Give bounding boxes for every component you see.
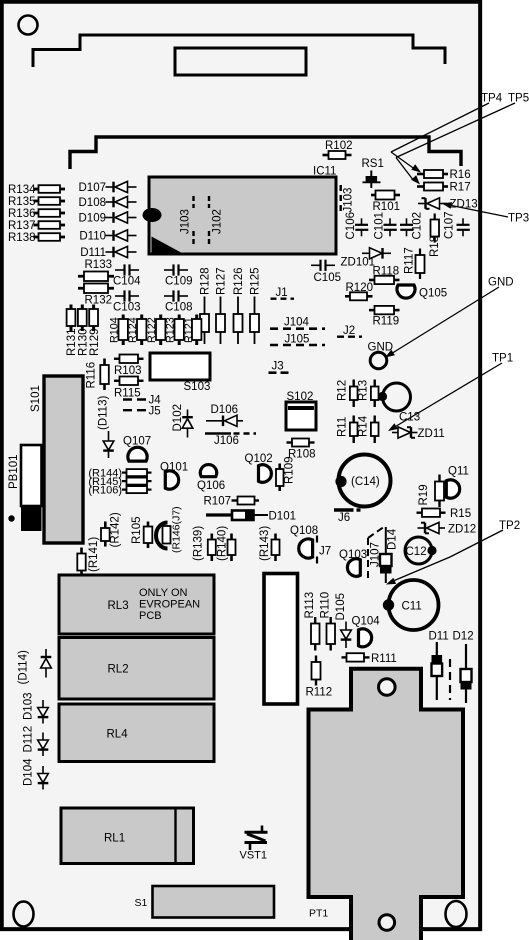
svg-text:Q102: Q102 xyxy=(245,453,273,465)
svg-text:R127: R127 xyxy=(216,268,228,296)
svg-text:R15: R15 xyxy=(450,508,471,520)
svg-text:(C14): (C14) xyxy=(351,476,380,488)
svg-text:D105: D105 xyxy=(335,593,347,621)
svg-text:PCB: PCB xyxy=(139,610,162,622)
transistor Q103 xyxy=(339,549,367,576)
resistor (R106) xyxy=(88,484,151,496)
resistor R115 xyxy=(114,377,144,400)
diode D111 xyxy=(80,246,136,259)
jumper J103 inside IC11 xyxy=(180,196,194,244)
resistor R12 xyxy=(337,380,358,408)
mounting hole bottom-left xyxy=(14,902,34,927)
svg-text:TP4: TP4 xyxy=(481,93,503,105)
pushbutton PB101 xyxy=(8,445,42,531)
jumper J4 xyxy=(123,395,161,407)
resistor R109 xyxy=(276,457,296,492)
diode D109 xyxy=(79,212,137,225)
svg-text:D111: D111 xyxy=(80,247,106,259)
resistor R108 xyxy=(287,439,316,461)
svg-text:R132: R132 xyxy=(85,295,113,307)
relay RL2 xyxy=(59,638,214,700)
capacitor (C14) xyxy=(335,455,390,507)
resistor R110 xyxy=(320,592,336,651)
wire dashed xyxy=(449,659,451,700)
capacitor C107 xyxy=(444,212,470,240)
resistor R132 xyxy=(78,284,114,307)
diode D11 xyxy=(429,631,449,701)
resistor R123 xyxy=(165,315,184,346)
switch S101 xyxy=(30,376,83,543)
resistor R17 xyxy=(417,182,471,194)
svg-text:D104: D104 xyxy=(23,758,35,786)
svg-text:D12: D12 xyxy=(453,631,474,643)
transistor Q107 xyxy=(123,436,151,462)
resistor (R142) xyxy=(101,512,122,547)
svg-text:C102: C102 xyxy=(412,212,424,240)
svg-text:R108: R108 xyxy=(288,449,316,461)
resistor R101 xyxy=(371,191,400,214)
zener diode ZD11 xyxy=(392,427,445,440)
transformer PT1 xyxy=(309,669,464,940)
svg-text:S1: S1 xyxy=(135,897,148,909)
resistor R105 xyxy=(131,517,152,549)
svg-text:R13: R13 xyxy=(358,380,370,401)
svg-text:C12: C12 xyxy=(406,546,427,558)
svg-text:J6: J6 xyxy=(338,512,350,524)
svg-text:ZD101: ZD101 xyxy=(341,257,376,269)
capacitor C103 xyxy=(113,290,141,313)
svg-text:J5: J5 xyxy=(149,406,161,418)
resistor R14 xyxy=(358,415,379,443)
leader GND to ground pad xyxy=(385,287,499,358)
board slot xyxy=(175,48,306,75)
diode D112 xyxy=(23,726,49,756)
capacitor C109 xyxy=(164,264,193,287)
svg-text:R129: R129 xyxy=(89,329,101,357)
svg-text:C13: C13 xyxy=(399,412,420,424)
resistor R11 xyxy=(337,416,358,444)
svg-text:Q106: Q106 xyxy=(197,480,225,492)
leader TP4 to R16 xyxy=(391,103,489,173)
svg-text:D109: D109 xyxy=(79,213,107,225)
resistor R107 xyxy=(204,496,260,508)
svg-text:R133: R133 xyxy=(85,259,113,271)
diode D101 xyxy=(206,511,296,523)
IC IC11 xyxy=(143,166,337,255)
transistor Q11 xyxy=(446,466,469,499)
svg-text:(R139): (R139) xyxy=(193,526,205,561)
svg-text:D108: D108 xyxy=(79,197,107,209)
capacitor C105 xyxy=(311,260,341,284)
resistor R104 xyxy=(109,315,128,346)
resistor (R146(J7) xyxy=(156,506,183,553)
capacitor C102 xyxy=(400,212,424,240)
diode D12 xyxy=(453,631,474,704)
resistor R135 xyxy=(8,196,65,208)
leader TP5 to R17 xyxy=(396,103,515,185)
resistor R118 xyxy=(369,266,400,285)
svg-text:R121: R121 xyxy=(183,317,195,343)
svg-text:R12: R12 xyxy=(337,380,349,401)
svg-text:R112: R112 xyxy=(306,687,333,699)
svg-text:PT1: PT1 xyxy=(309,908,328,920)
leader TP1 to ZD11 xyxy=(388,363,502,431)
transistor Q101 xyxy=(160,462,188,490)
svg-text:C106: C106 xyxy=(345,212,357,240)
svg-text:S101: S101 xyxy=(30,385,42,412)
connector block xyxy=(264,574,298,705)
resistor R19 xyxy=(418,475,444,508)
capacitor C12 xyxy=(405,537,437,564)
svg-text:RL1: RL1 xyxy=(104,833,125,845)
transistor Q108 xyxy=(290,525,318,558)
jumper J5 xyxy=(123,406,161,418)
svg-text:IC11: IC11 xyxy=(313,166,336,178)
resistor R129 xyxy=(89,305,101,357)
svg-text:Q108: Q108 xyxy=(290,525,318,537)
svg-text:Q104: Q104 xyxy=(352,616,381,628)
diode (D114) xyxy=(18,649,52,685)
svg-text:J104: J104 xyxy=(284,317,310,329)
leader TP3 to ZD13 xyxy=(442,202,508,217)
svg-text:R101: R101 xyxy=(373,201,401,213)
svg-text:R135: R135 xyxy=(8,196,36,208)
svg-text:R107: R107 xyxy=(204,496,232,508)
relay RL4 xyxy=(59,704,214,762)
svg-text:R105: R105 xyxy=(131,517,143,545)
svg-text:R104: R104 xyxy=(109,317,121,343)
svg-text:D112: D112 xyxy=(23,726,35,753)
switch S102 xyxy=(286,391,316,430)
jumper J7 xyxy=(317,536,331,567)
resistor R18 xyxy=(429,214,441,258)
svg-text:R131: R131 xyxy=(66,329,78,357)
svg-text:C101: C101 xyxy=(374,212,386,240)
diode D102 xyxy=(172,404,193,438)
svg-text:(R140): (R140) xyxy=(216,526,228,561)
svg-text:D14: D14 xyxy=(387,528,399,550)
resistor R102 xyxy=(323,140,353,159)
capacitor C101 xyxy=(374,212,397,240)
relay RL3 xyxy=(59,575,214,634)
test point label TP4 xyxy=(481,93,503,105)
svg-text:Q11: Q11 xyxy=(448,466,469,478)
svg-text:C103: C103 xyxy=(113,302,141,314)
resistor R111 xyxy=(342,653,397,665)
jumper J6 xyxy=(334,510,361,524)
resistor R113 xyxy=(304,592,320,651)
resistor (R140) xyxy=(216,526,235,561)
svg-text:(D114): (D114) xyxy=(18,650,30,684)
resistor R16 xyxy=(417,169,471,181)
resistor R131 xyxy=(66,305,78,357)
capacitor C11 xyxy=(383,580,439,630)
zener diode ZD101 xyxy=(341,248,392,269)
svg-text:(R106): (R106) xyxy=(88,484,122,496)
label GND right xyxy=(488,277,514,289)
resistor R13 xyxy=(358,380,379,408)
test point label TP3 xyxy=(508,213,529,225)
board outline inner step xyxy=(70,137,461,169)
test point label TP5 xyxy=(508,93,529,105)
diode D106 xyxy=(206,404,243,426)
svg-text:R116: R116 xyxy=(86,362,98,389)
zener diode ZD13 xyxy=(418,198,478,211)
svg-text:J103: J103 xyxy=(180,209,192,234)
jumper J105 xyxy=(270,334,325,346)
resistor R128 xyxy=(200,268,212,345)
svg-text:C108: C108 xyxy=(165,302,193,314)
svg-text:ONLY ON: ONLY ON xyxy=(139,587,188,599)
capacitor C13 xyxy=(378,383,420,424)
svg-text:R115: R115 xyxy=(114,388,141,400)
jumper J102 inside IC11 xyxy=(209,196,224,244)
svg-text:D107: D107 xyxy=(79,182,107,194)
resistor R126 xyxy=(233,268,245,345)
board outline top step xyxy=(33,35,445,67)
resistor R136 xyxy=(8,208,65,220)
ground pad GND xyxy=(368,342,394,369)
svg-text:R136: R136 xyxy=(8,208,36,220)
svg-text:S103: S103 xyxy=(184,381,211,393)
resistor (R139) xyxy=(193,526,216,561)
svg-text:R14: R14 xyxy=(358,415,370,437)
svg-text:R102: R102 xyxy=(325,140,353,152)
svg-text:(D113): (D113) xyxy=(98,396,110,430)
diode D107 xyxy=(79,181,137,194)
svg-text:R124: R124 xyxy=(127,317,139,343)
svg-text:PB101: PB101 xyxy=(8,454,20,489)
relay RL1 xyxy=(61,808,194,864)
svg-text:R16: R16 xyxy=(450,169,471,181)
svg-text:R137: R137 xyxy=(8,220,36,232)
resistor R124 xyxy=(127,315,146,346)
svg-text:R118: R118 xyxy=(373,266,400,278)
resistor R121 xyxy=(183,315,201,346)
svg-text:J102: J102 xyxy=(212,209,224,234)
resistor (R145) xyxy=(88,476,151,488)
jumper J3 xyxy=(269,361,292,373)
svg-text:RS1: RS1 xyxy=(362,158,384,170)
svg-text:TP1: TP1 xyxy=(492,353,513,365)
resistor R103 xyxy=(114,355,144,378)
svg-text:R122: R122 xyxy=(146,317,158,343)
jumper J106 xyxy=(205,434,256,448)
diode D14 xyxy=(380,527,399,583)
jumper J2 xyxy=(337,325,362,337)
resistor (R143) xyxy=(259,526,280,561)
svg-text:C11: C11 xyxy=(402,601,422,613)
svg-text:J7: J7 xyxy=(319,546,331,558)
transistor Q106 xyxy=(197,465,225,492)
svg-text:D106: D106 xyxy=(211,404,239,416)
jumper J103 xyxy=(341,185,355,213)
svg-text:J2: J2 xyxy=(343,325,355,337)
resistor R116 xyxy=(86,359,109,391)
svg-text:R138: R138 xyxy=(8,232,36,244)
svg-text:C105: C105 xyxy=(314,272,342,284)
svg-text:R11: R11 xyxy=(337,417,349,437)
svg-text:D101: D101 xyxy=(269,511,297,523)
resistor (R144) xyxy=(88,467,151,479)
svg-text:D11: D11 xyxy=(429,631,449,643)
svg-text:J106: J106 xyxy=(214,435,239,447)
capacitor C104 xyxy=(113,264,141,287)
svg-text:J1: J1 xyxy=(276,287,288,299)
capacitor C108 xyxy=(164,290,193,313)
jumper J104 xyxy=(270,317,325,329)
svg-text:Q101: Q101 xyxy=(160,462,188,474)
transistor Q105 xyxy=(397,285,447,300)
svg-text:R117: R117 xyxy=(404,247,416,274)
svg-text:Q103: Q103 xyxy=(339,549,367,561)
resistor R120 xyxy=(345,282,373,300)
capacitor C106 xyxy=(345,212,368,240)
jumper J1 xyxy=(271,287,295,299)
svg-text:C109: C109 xyxy=(165,276,193,288)
svg-text:R109: R109 xyxy=(284,457,296,485)
varistor VST1 xyxy=(240,826,268,862)
resistor R137 xyxy=(8,220,65,232)
svg-text:R119: R119 xyxy=(373,316,400,328)
svg-text:C104: C104 xyxy=(113,276,141,288)
svg-text:RL3: RL3 xyxy=(108,600,129,612)
svg-text:R134: R134 xyxy=(8,184,36,196)
zener diode ZD12 xyxy=(418,522,477,535)
resonator RS1 xyxy=(362,158,384,188)
svg-text:TP5: TP5 xyxy=(508,93,529,105)
svg-text:R19: R19 xyxy=(418,484,430,505)
diode D110 xyxy=(79,230,136,243)
resistor R119 xyxy=(369,306,400,328)
svg-text:(R141): (R141) xyxy=(88,537,100,572)
svg-text:C107: C107 xyxy=(444,212,456,240)
svg-text:R130: R130 xyxy=(78,329,90,357)
jumper J107 xyxy=(368,528,383,581)
diode D108 xyxy=(79,196,137,209)
diode (D113) xyxy=(98,396,114,458)
svg-text:ZD11: ZD11 xyxy=(418,428,445,440)
svg-text:R126: R126 xyxy=(233,268,245,296)
svg-text:(R142): (R142) xyxy=(110,512,122,547)
resistor R134 xyxy=(8,184,65,196)
svg-text:ZD13: ZD13 xyxy=(450,199,478,211)
svg-text:R103: R103 xyxy=(114,365,142,377)
test point label TP2 xyxy=(499,520,520,532)
svg-text:R18: R18 xyxy=(429,236,441,257)
resistor R125 xyxy=(250,268,262,345)
leader TP2 to C11 xyxy=(386,530,503,585)
svg-text:S102: S102 xyxy=(287,391,314,403)
diode D105 xyxy=(335,593,351,648)
resistor R133 xyxy=(78,259,114,281)
resistor (R141) xyxy=(77,537,100,576)
diode D104 xyxy=(23,758,49,790)
svg-text:R128: R128 xyxy=(200,268,212,296)
resistor R130 xyxy=(78,305,90,357)
svg-text:D102: D102 xyxy=(172,404,184,432)
resistor R117 xyxy=(404,247,425,279)
svg-text:Q107: Q107 xyxy=(123,436,151,448)
svg-text:R113: R113 xyxy=(304,592,316,619)
svg-text:R120: R120 xyxy=(346,282,374,294)
svg-text:J103: J103 xyxy=(343,188,355,213)
resistor R122 xyxy=(146,315,165,346)
switch S103 xyxy=(150,353,210,393)
svg-text:R123: R123 xyxy=(165,317,177,343)
svg-text:J3: J3 xyxy=(272,361,284,373)
resistor R112 xyxy=(306,656,333,699)
svg-text:(R146(J7): (R146(J7) xyxy=(171,506,183,553)
svg-text:(R143): (R143) xyxy=(259,526,271,561)
svg-text:VST1: VST1 xyxy=(240,850,268,862)
svg-text:R17: R17 xyxy=(450,182,471,194)
test point label TP1 xyxy=(492,353,513,365)
svg-text:R125: R125 xyxy=(250,268,262,296)
svg-text:RL2: RL2 xyxy=(108,664,129,676)
svg-text:R110: R110 xyxy=(320,592,332,619)
svg-text:EVROPEAN: EVROPEAN xyxy=(139,599,200,611)
transistor Q104 xyxy=(352,616,381,647)
svg-text:D110: D110 xyxy=(79,231,106,243)
svg-text:ZD12: ZD12 xyxy=(448,524,476,536)
svg-text:GND: GND xyxy=(488,277,514,289)
svg-text:R111: R111 xyxy=(371,653,397,665)
svg-text:TP3: TP3 xyxy=(508,213,529,225)
svg-text:D103: D103 xyxy=(23,693,35,721)
resistor R138 xyxy=(8,232,65,244)
mounting hole top-left xyxy=(19,16,38,35)
diode D103 xyxy=(23,693,49,724)
resistor R127 xyxy=(216,268,228,345)
mounting hole bottom-right xyxy=(446,901,467,927)
pad dot xyxy=(8,515,14,521)
switch S1 xyxy=(135,886,275,918)
svg-text:RL4: RL4 xyxy=(107,729,129,741)
resistor R15 xyxy=(417,508,472,520)
transistor Q102 xyxy=(245,453,273,482)
svg-text:Q105: Q105 xyxy=(419,288,447,300)
